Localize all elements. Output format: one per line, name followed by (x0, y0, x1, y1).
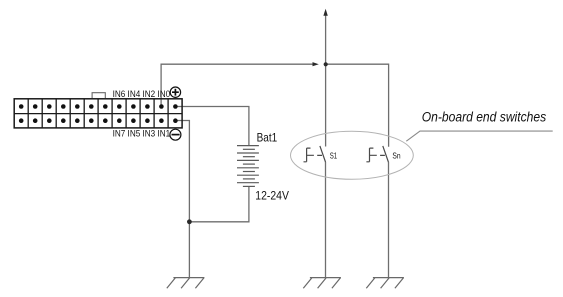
svg-text:IN7 IN5 IN3 IN1: IN7 IN5 IN3 IN1 (113, 128, 171, 138)
svg-text:S1: S1 (330, 151, 338, 161)
svg-text:12-24V: 12-24V (255, 189, 289, 203)
svg-text:IN6 IN4 IN2 IN0: IN6 IN4 IN2 IN0 (113, 89, 171, 99)
svg-text:Sn: Sn (392, 151, 400, 161)
svg-text:On-board end switches: On-board end switches (422, 110, 547, 125)
svg-text:Bat1: Bat1 (257, 131, 278, 145)
